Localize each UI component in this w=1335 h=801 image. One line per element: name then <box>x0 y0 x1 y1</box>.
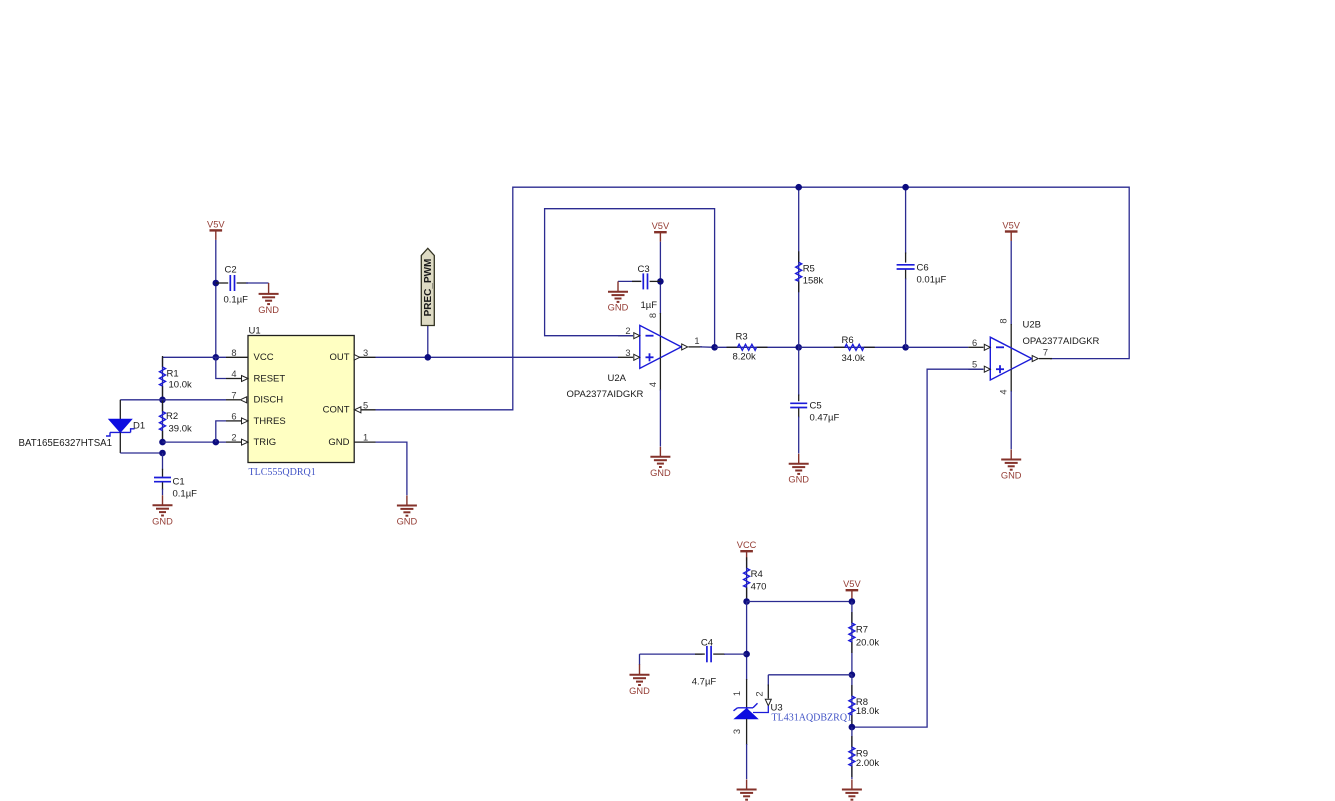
svg-text:3: 3 <box>732 729 742 734</box>
svg-text:3: 3 <box>625 348 630 358</box>
junction VCC node <box>213 354 220 361</box>
junction DISCH node <box>159 397 166 404</box>
ground GND (C5) <box>788 454 809 485</box>
U2B pin 7 output <box>1032 348 1052 362</box>
svg-text:V5V: V5V <box>652 221 670 231</box>
svg-text:2.00k: 2.00k <box>856 758 879 769</box>
resistor R6 34.0k <box>799 335 906 364</box>
svg-text:V5V: V5V <box>207 219 225 229</box>
junction C4 tap <box>743 651 750 658</box>
svg-text:C4: C4 <box>701 638 713 649</box>
capacitor C4 4.7uF <box>640 638 747 688</box>
svg-text:D1: D1 <box>133 420 145 431</box>
resistor R7 20.0k <box>849 602 879 675</box>
svg-text:8.20k: 8.20k <box>733 352 756 363</box>
wire R7/R8 node to U3 ref <box>768 675 852 686</box>
ground (R9) <box>842 780 862 800</box>
wire VCC line down to U3 <box>746 602 748 681</box>
U1 pin 7 DISCH <box>226 390 283 405</box>
svg-text:8: 8 <box>999 318 1009 323</box>
svg-text:6: 6 <box>231 411 236 421</box>
wire V5V to U2B pin8 <box>1010 241 1012 369</box>
junction R8/R9 node <box>849 724 856 731</box>
svg-text:2: 2 <box>231 433 236 443</box>
svg-text:GND: GND <box>629 686 650 696</box>
junction TRIG node <box>159 439 166 446</box>
U2A pin 3 non-inverting input <box>618 348 640 361</box>
resistor R8 18.0k <box>849 675 879 727</box>
wire U2A feedback loop <box>545 209 715 348</box>
svg-text:7: 7 <box>1043 348 1048 358</box>
svg-text:8: 8 <box>231 348 236 358</box>
junction C6 top <box>902 184 909 191</box>
ground GND (C2) <box>258 283 279 315</box>
capacitor C6 0.01uF <box>897 187 947 347</box>
U1 pin 2 TRIG <box>226 433 276 448</box>
svg-text:V5V: V5V <box>843 579 861 589</box>
op-amp U2A OPA2377AIDGKR <box>567 325 682 399</box>
svg-text:C2: C2 <box>225 265 237 276</box>
capacitor C3 1uF <box>618 264 660 311</box>
resistor R9 2.00k <box>849 727 879 779</box>
power symbol V5V (C2 / U1 VCC rail) <box>207 219 225 240</box>
junction THRES tap <box>213 439 220 446</box>
junction R3/R5/R6/C5 node <box>795 344 802 351</box>
svg-text:6: 6 <box>972 338 977 348</box>
svg-text:TL431AQDBZRQ1: TL431AQDBZRQ1 <box>772 712 853 723</box>
resistor R2 39.0k <box>160 400 192 442</box>
svg-text:20.0k: 20.0k <box>856 637 879 648</box>
svg-text:4.7µF: 4.7µF <box>692 676 717 687</box>
svg-text:PREC_PWM: PREC_PWM <box>423 259 434 317</box>
svg-text:C3: C3 <box>638 264 650 275</box>
junction U2A output node <box>711 344 718 351</box>
svg-text:GND: GND <box>397 517 418 527</box>
capacitor C1 0.1uF <box>154 453 197 499</box>
svg-text:1µF: 1µF <box>641 300 658 311</box>
svg-text:0.1µF: 0.1µF <box>173 488 198 499</box>
wire RESET from VCC node <box>216 357 226 378</box>
svg-text:4: 4 <box>231 369 236 379</box>
svg-text:4: 4 <box>999 389 1009 394</box>
svg-text:R7: R7 <box>856 625 868 636</box>
svg-text:R2: R2 <box>166 411 178 422</box>
resistor R5 158k <box>796 187 824 347</box>
ground (U3) <box>737 780 757 800</box>
svg-text:0.1µF: 0.1µF <box>224 295 249 306</box>
capacitor C5 0.47uF <box>790 347 839 453</box>
svg-text:R6: R6 <box>842 335 854 346</box>
U1 pin 4 RESET <box>226 369 285 384</box>
svg-text:1: 1 <box>363 433 368 443</box>
junction C3 tap <box>657 278 664 285</box>
wire D1 bottom return <box>120 452 162 454</box>
svg-text:1: 1 <box>694 336 699 346</box>
net port PREC_PWM <box>421 248 434 357</box>
svg-text:10.0k: 10.0k <box>169 380 192 391</box>
wire R6 node to U2B -input <box>906 346 969 348</box>
svg-text:R5: R5 <box>803 263 815 274</box>
svg-text:RESET: RESET <box>254 373 286 384</box>
svg-text:OPA2377AIDGKR: OPA2377AIDGKR <box>567 389 644 400</box>
svg-text:GND: GND <box>650 468 671 478</box>
svg-text:U1: U1 <box>249 326 261 337</box>
wire V5V rail down to VCC node <box>215 240 217 357</box>
svg-text:R1: R1 <box>167 368 179 379</box>
svg-text:0.01µF: 0.01µF <box>917 275 947 286</box>
wire U2B +input to divider <box>852 369 984 727</box>
ground GND (U2B) <box>1001 450 1022 481</box>
svg-text:TLC555QDRQ1: TLC555QDRQ1 <box>249 467 316 478</box>
ground GND (C3) <box>608 281 629 312</box>
svg-text:R3: R3 <box>736 332 748 343</box>
svg-text:4: 4 <box>648 382 658 387</box>
svg-text:VCC: VCC <box>737 540 757 550</box>
ground GND (C4) <box>629 654 650 696</box>
junction R6/C6 node <box>902 344 909 351</box>
svg-text:VCC: VCC <box>254 352 274 363</box>
U2B pin 4 / ground <box>999 369 1012 449</box>
U2A pin 1 output <box>682 336 715 350</box>
U2B pin 8 number <box>999 318 1009 323</box>
svg-text:C5: C5 <box>810 400 822 411</box>
svg-text:34.0k: 34.0k <box>842 353 865 364</box>
svg-text:GND: GND <box>152 516 173 526</box>
resistor R4 470 <box>744 557 767 601</box>
wire OUT net to U2A +input <box>376 356 619 358</box>
svg-text:0.47µF: 0.47µF <box>810 412 840 423</box>
svg-text:U2B: U2B <box>1023 319 1041 330</box>
wire VCC node to R1 top <box>163 356 227 358</box>
svg-text:R4: R4 <box>751 569 763 580</box>
wire R4 node to V5V node <box>747 601 852 603</box>
wire U1 GND pin to ground <box>376 442 407 495</box>
wire V5V to U2A pin8 <box>659 242 661 358</box>
shunt reference U3 TL431AQDBZRQ1 <box>732 679 852 779</box>
U1 pin 5 CONT <box>323 400 376 415</box>
junction C2 tap <box>213 280 220 287</box>
ground GND (U1) <box>397 496 418 527</box>
U2B pin 5 non-inverting input <box>968 360 990 373</box>
U2B pin 6 inverting input <box>968 338 990 351</box>
junction R5 top <box>795 184 802 191</box>
svg-text:GND: GND <box>258 305 279 315</box>
svg-text:2: 2 <box>755 691 765 696</box>
svg-text:18.0k: 18.0k <box>856 706 879 717</box>
svg-text:470: 470 <box>751 581 767 592</box>
svg-text:39.0k: 39.0k <box>169 423 192 434</box>
junction D1 return node <box>159 450 166 457</box>
wire DISCH node <box>120 399 226 401</box>
svg-text:5: 5 <box>972 360 977 370</box>
svg-text:5: 5 <box>363 400 368 410</box>
junction R7/R8 node <box>849 672 856 679</box>
power symbol V5V (U2B) <box>1002 221 1020 242</box>
svg-text:U2A: U2A <box>608 373 627 384</box>
svg-text:GND: GND <box>788 475 809 485</box>
op-amp U2B OPA2377AIDGKR <box>990 319 1099 380</box>
U2A pin 2 inverting input <box>618 326 640 339</box>
ground GND (U2A) <box>650 447 671 478</box>
power symbol V5V (U2A) <box>652 221 670 242</box>
svg-text:CONT: CONT <box>323 405 350 416</box>
U2A pin 8 number <box>648 313 658 318</box>
resistor R1 10.0k <box>160 356 192 400</box>
ground GND (C1) <box>152 495 173 526</box>
diode D1 BAT165 (schottky) <box>106 400 145 453</box>
junction V5V divider node <box>849 598 856 605</box>
svg-text:THRES: THRES <box>254 416 286 427</box>
svg-text:2: 2 <box>625 326 630 336</box>
svg-text:GND: GND <box>1001 471 1022 481</box>
svg-text:V5V: V5V <box>1002 221 1020 231</box>
label BAT165E6327HTSA1 <box>19 438 113 449</box>
svg-text:C6: C6 <box>917 262 929 273</box>
svg-text:TRIG: TRIG <box>254 437 277 448</box>
power symbol V5V (divider) <box>843 579 861 600</box>
capacitor C2 0.1uF <box>216 265 269 306</box>
wire TRIG node to pin <box>163 441 227 443</box>
svg-text:C1: C1 <box>173 476 185 487</box>
wire CONT net (U1 CONT - top rail - U2B out) <box>376 187 1130 410</box>
svg-text:BAT165E6327HTSA1: BAT165E6327HTSA1 <box>19 438 113 449</box>
power symbol VCC <box>737 540 757 561</box>
resistor R3 8.20k <box>715 332 799 363</box>
svg-text:GND: GND <box>328 437 349 448</box>
U1 pin 3 OUT <box>329 348 375 363</box>
svg-text:158k: 158k <box>803 275 824 286</box>
svg-text:OUT: OUT <box>329 352 349 363</box>
wire THRES from TRIG node <box>216 421 226 442</box>
junction PREC_PWM tap <box>425 354 432 361</box>
U3 pin 2 ref input <box>753 685 771 713</box>
junction R4 bottom node <box>743 598 750 605</box>
svg-text:8: 8 <box>648 313 658 318</box>
U1 pin 1 GND <box>328 433 375 448</box>
svg-text:DISCH: DISCH <box>254 395 284 406</box>
svg-text:GND: GND <box>608 303 629 313</box>
svg-text:3: 3 <box>363 348 368 358</box>
svg-text:OPA2377AIDGKR: OPA2377AIDGKR <box>1023 336 1100 347</box>
svg-text:1: 1 <box>732 691 742 696</box>
U2A pin 4 / ground <box>648 358 660 447</box>
svg-text:7: 7 <box>231 390 236 400</box>
U1 pin 8 VCC <box>226 348 274 363</box>
U1 pin 6 THRES <box>226 411 286 426</box>
IC U1 TLC555QDRQ1 body <box>248 326 354 479</box>
